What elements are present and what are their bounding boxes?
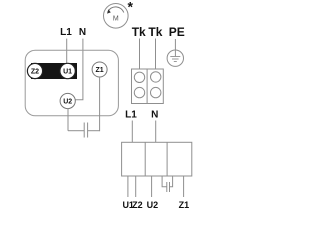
svg-text:U2: U2 [63, 99, 72, 106]
svg-text:U1: U1 [63, 69, 72, 76]
box divider 2 [166, 142, 168, 176]
svg-text:Z2: Z2 [31, 69, 39, 76]
wire PE down [174, 39, 176, 57]
svg-text:N: N [79, 27, 86, 38]
wire U2 down [67, 109, 69, 131]
Tk block hole 3 [134, 87, 144, 97]
wire Tk1 down [139, 39, 141, 70]
capacitor C2 left lead [162, 176, 167, 187]
wire L1 to U1 [66, 39, 68, 64]
terminal Z2 [27, 63, 42, 78]
Tk block hole 2 [151, 72, 161, 82]
Tk block hole 4 [151, 87, 161, 97]
wire N into box [155, 121, 157, 143]
svg-text:U2: U2 [147, 200, 159, 210]
wire Z2 out [135, 176, 137, 197]
jumper bar Z2-U1 [31, 63, 77, 79]
svg-text:Tk: Tk [132, 25, 146, 39]
capacitor C2 plate right [169, 182, 171, 192]
wire N down [75, 39, 83, 100]
wire capacitor to Z1 [88, 130, 100, 132]
svg-text:PE: PE [169, 25, 185, 39]
capacitor C2 right lead [170, 176, 173, 187]
svg-text:Z1: Z1 [179, 200, 190, 210]
wire U2 out [151, 176, 153, 197]
motor rotation arrowhead [107, 9, 111, 13]
svg-text:Tk: Tk [148, 25, 162, 39]
terminal box (bottom) [122, 142, 192, 176]
wire Z1 down [99, 77, 101, 131]
PE earth symbol circle [167, 50, 183, 66]
capacitor C2 plate left [166, 182, 168, 192]
wire U2 to capacitor [68, 130, 84, 132]
svg-text:N: N [151, 110, 158, 121]
PE earth bar 1 [170, 56, 180, 58]
terminal U2 [60, 93, 75, 108]
PE earth bar 2 [172, 58, 179, 60]
wire Tk2 down [155, 39, 157, 70]
box divider 1 [144, 142, 146, 176]
svg-text:Z1: Z1 [96, 67, 104, 74]
terminal box (left) [25, 50, 118, 116]
capacitor C1 plate left [83, 123, 85, 138]
motor rotation arrow arc [108, 7, 124, 13]
PE earth bar 3 [174, 61, 177, 63]
wire Z1 out [183, 176, 185, 197]
svg-text:Z2: Z2 [132, 200, 143, 210]
Tk block divider [146, 69, 148, 104]
svg-text:L1: L1 [125, 110, 137, 121]
terminal U1 [60, 63, 75, 78]
wire U1 out [127, 176, 129, 197]
svg-text:*: * [127, 0, 133, 14]
svg-text:L1: L1 [60, 27, 72, 38]
capacitor C1 plate right [87, 123, 89, 138]
Tk block hole 1 [134, 72, 144, 82]
Tk terminal block [132, 69, 164, 104]
wire L1 into box [131, 121, 133, 143]
terminal Z1 [92, 62, 107, 77]
svg-text:M: M [113, 16, 119, 23]
motor M1 circle [104, 4, 129, 29]
